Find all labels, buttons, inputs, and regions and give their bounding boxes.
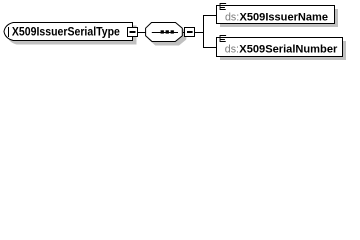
wire: complexType to sequence bbox=[138, 32, 146, 33]
shadow of sequence compositor bbox=[149, 26, 186, 45]
svg-text:ds:X509IssuerName: ds:X509IssuerName bbox=[225, 11, 328, 23]
complexType box X509IssuerSerialType bbox=[4, 23, 133, 41]
sequence dot 1 bbox=[161, 30, 164, 33]
sequence dot 2 bbox=[166, 30, 169, 33]
text content icon bbox=[220, 3, 227, 10]
wire: branch to X509SerialNumber bbox=[204, 47, 217, 48]
shadow of complexType box bbox=[8, 26, 137, 44]
element box ds:X509IssuerName bbox=[217, 6, 335, 24]
wire: vertical branch bbox=[203, 15, 204, 48]
complexType inner right line bbox=[127, 27, 129, 37]
svg-text:ds:X509SerialNumber: ds:X509SerialNumber bbox=[225, 43, 338, 55]
sequence compositor octagon bbox=[146, 23, 183, 42]
svg-text:X509IssuerSerialType: X509IssuerSerialType bbox=[12, 27, 120, 39]
wire: sequence to its collapse box bbox=[183, 32, 185, 33]
wire: branch to X509IssuerName bbox=[204, 15, 217, 16]
text content icon bbox=[220, 35, 227, 42]
sequence inner line bbox=[152, 32, 178, 33]
element box ds:X509SerialNumber bbox=[217, 38, 343, 57]
minus sign bbox=[187, 31, 193, 33]
collapse box of complexType bbox=[128, 28, 138, 37]
shadow of element box X509SerialNumber bbox=[220, 41, 346, 60]
wire: collapse box to branch bbox=[195, 32, 204, 33]
collapse box of sequence bbox=[185, 28, 195, 37]
shadow of element box X509IssuerName bbox=[220, 9, 338, 27]
sequence dot 3 bbox=[171, 30, 174, 33]
minus sign bbox=[130, 31, 136, 33]
complexType inner left line bbox=[8, 27, 10, 37]
